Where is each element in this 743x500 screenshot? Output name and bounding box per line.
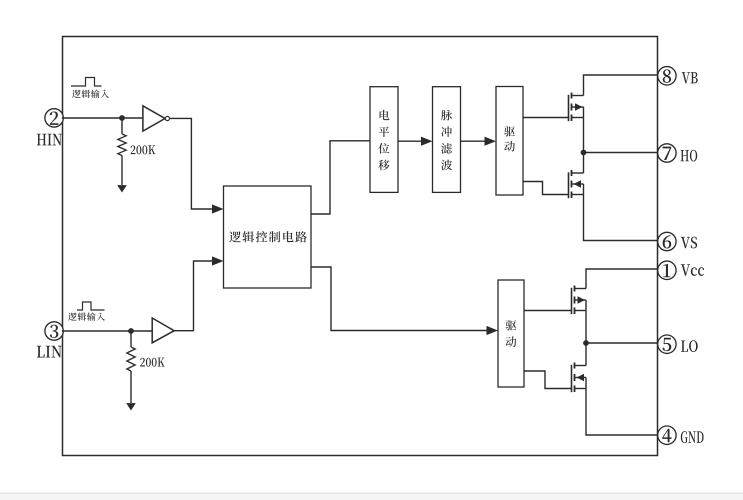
label 逻辑输入 (HIN) [72,90,109,98]
wire Q2 source to VS [584,195,659,241]
block pulse filter [433,87,461,193]
pin label LIN [37,346,62,358]
junction HO node [581,150,587,156]
IC boundary box [63,37,658,456]
wire level shift to pulse filter [398,140,422,142]
pin label VB [682,72,698,83]
pin label HO [681,150,698,162]
wire driver 2 to Q3 gate [524,310,572,312]
arrowhead into pulse filter [421,137,433,146]
label 200K (R2) [140,358,165,367]
wire pulse filter to driver 1 [461,140,486,142]
arrowhead into driver 2 [487,326,499,335]
wire Vcc net [586,269,658,289]
wire logic block to driver 2 [311,267,488,331]
wire LIN input [62,330,152,332]
pin 3 circle [45,322,63,340]
junction LO node [583,340,589,346]
pin 5 circle [658,335,676,353]
block driver 1 [496,87,523,196]
label 电平位移 [378,110,389,170]
pin 7 circle [658,144,676,162]
wire U1 output to logic block [170,118,213,209]
label 脉冲滤波 [441,110,452,170]
wire Q4 source to GND [586,389,658,436]
wire Q1 source to HO node [583,118,585,174]
buffer U1 (HIN inverter) [143,106,170,131]
wire U2 output to logic block [174,261,212,331]
wire driver 2 to Q4 gate [524,371,572,389]
label 逻辑输入 (LIN) [68,312,105,320]
wire VB net [584,75,659,96]
block driver 2 [498,280,524,387]
block logic control circuit [224,186,312,288]
buffer U2 (LIN buffer) [152,318,174,343]
logic input pulse icon (LIN) [77,302,105,310]
wire logic block to level shift [311,141,370,214]
label 驱动 (driver 1) [504,126,515,151]
transistor Q4 [572,363,587,393]
pin 6 circle [658,232,676,250]
wire Q3 source to LO node [585,311,587,366]
wire driver 1 to Q2 gate [523,182,569,195]
logic input pulse icon (HIN) [71,78,102,87]
pin 8 circle [658,67,676,85]
wire HO net [584,152,659,154]
arrowhead into driver 1 [485,137,497,146]
label 逻辑控制电路 [229,231,307,242]
wire HIN input [62,117,143,119]
pin label VS [681,237,697,249]
transistor Q1 [569,93,584,122]
pin 2 circle [45,109,63,127]
wire driver 1 to Q1 gate [523,117,569,119]
pin label LO [681,340,698,352]
junction LIN node [128,328,134,334]
arrowhead into logic block (top) [212,204,224,213]
resistor R1 200K [118,118,126,185]
label 驱动 (driver 2) [506,320,517,347]
resistor R2 200K [127,331,135,403]
ground arrow R2 [126,403,136,410]
wire LO net [586,342,658,344]
pin label Vcc [681,264,704,276]
transistor Q2 [569,170,584,198]
block level shift [370,87,398,193]
pin 1 circle [658,261,676,279]
label 200K (R1) [131,145,156,154]
ground arrow R1 [117,185,127,192]
pin 4 circle [658,426,676,444]
arrowhead into logic block (bottom) [212,256,224,265]
pin label HIN [37,134,62,146]
pin label GND [681,431,704,443]
junction HIN node [119,115,125,121]
transistor Q3 [572,286,587,315]
